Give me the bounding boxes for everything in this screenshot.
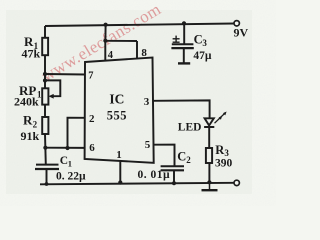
svg-text:R: R xyxy=(23,113,33,128)
svg-text:2: 2 xyxy=(186,155,191,165)
svg-text:555: 555 xyxy=(107,108,127,122)
svg-text:IC: IC xyxy=(109,92,124,107)
svg-text:5: 5 xyxy=(145,139,151,151)
svg-text:4: 4 xyxy=(108,50,114,61)
svg-text:6: 6 xyxy=(89,142,95,154)
svg-text:LED: LED xyxy=(178,121,202,133)
svg-text:7: 7 xyxy=(88,70,93,81)
svg-text:47k: 47k xyxy=(22,47,41,61)
svg-text:1: 1 xyxy=(116,149,122,161)
svg-text:0. 22µ: 0. 22µ xyxy=(56,171,86,183)
svg-text:C: C xyxy=(194,32,203,46)
svg-text:91k: 91k xyxy=(21,129,40,143)
svg-text:1: 1 xyxy=(68,158,72,168)
svg-text:2: 2 xyxy=(89,113,95,125)
svg-text:3: 3 xyxy=(224,148,229,158)
svg-text:390: 390 xyxy=(215,157,233,169)
svg-text:9V: 9V xyxy=(234,25,249,39)
svg-text:240k: 240k xyxy=(14,94,39,108)
svg-text:0. 01µ: 0. 01µ xyxy=(138,169,171,181)
svg-text:2: 2 xyxy=(33,119,38,129)
svg-text:C: C xyxy=(177,149,186,163)
svg-text:3: 3 xyxy=(144,96,150,108)
svg-text:47µ: 47µ xyxy=(193,50,212,62)
svg-text:3: 3 xyxy=(202,38,207,48)
svg-text:8: 8 xyxy=(141,47,147,59)
